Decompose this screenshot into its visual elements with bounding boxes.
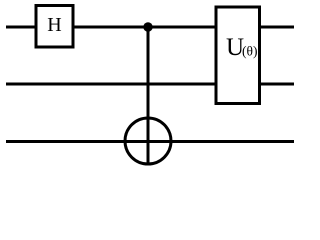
wire q2 (bottom qubit line) xyxy=(6,140,294,143)
svg-text:(θ): (θ) xyxy=(242,44,257,59)
gate H box xyxy=(36,6,73,48)
wire q0 (top qubit line) xyxy=(6,26,294,29)
svg-text:H: H xyxy=(47,14,61,36)
gate U(theta) box xyxy=(216,7,260,104)
CNOT target (XOR circle) on q2 xyxy=(125,118,171,164)
wire q1 (middle qubit line) xyxy=(6,83,294,86)
node CNOT control dot on q0 xyxy=(143,22,152,31)
wire CNOT vertical control line xyxy=(147,27,150,165)
